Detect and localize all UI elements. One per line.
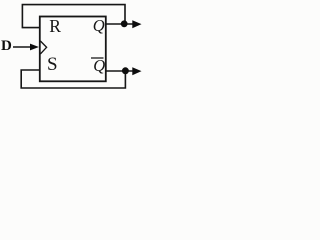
svg-text:S: S bbox=[47, 54, 58, 75]
svg-text:Q: Q bbox=[93, 56, 105, 75]
svg-text:Q: Q bbox=[93, 16, 105, 35]
svg-text:R: R bbox=[49, 16, 61, 36]
svg-text:D: D bbox=[1, 38, 12, 54]
